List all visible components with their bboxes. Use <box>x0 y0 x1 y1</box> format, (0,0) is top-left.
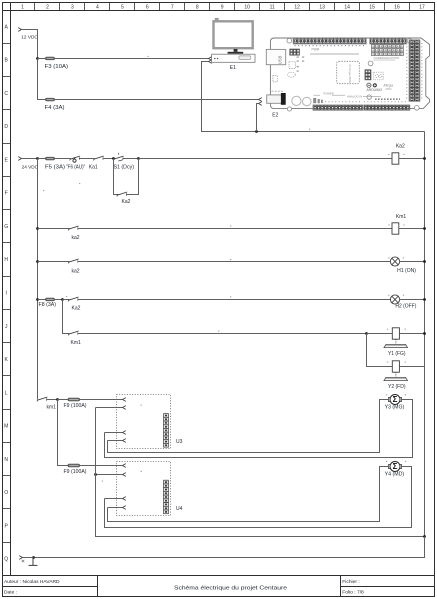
wire F8 to row J <box>63 300 70 334</box>
wire <box>399 228 425 230</box>
node rail row H <box>36 260 39 263</box>
fuse F5 <box>46 157 55 160</box>
svg-text:9: 9 <box>221 4 224 10</box>
node rail row I <box>36 298 39 301</box>
node ground <box>32 556 35 559</box>
arduino analog in silk <box>347 95 381 99</box>
contact ka2 row G <box>68 226 79 230</box>
svg-text:E1: E1 <box>230 65 236 71</box>
contact ka2 row H <box>68 259 79 263</box>
svg-text:ARDUINO: ARDUINO <box>367 88 383 92</box>
svg-text:Km1: Km1 <box>396 214 407 220</box>
svg-text:U4: U4 <box>176 506 183 512</box>
arduino power silk <box>314 91 346 95</box>
svg-text:Σ: Σ <box>393 462 398 471</box>
node S1 branch right <box>137 157 140 160</box>
ground <box>29 558 38 566</box>
svg-text:ATmega 2560: ATmega 2560 <box>348 64 352 83</box>
svg-text:2: 2 <box>46 4 49 10</box>
svg-text:1: 1 <box>21 4 24 10</box>
svg-text:2560: 2560 <box>386 87 392 91</box>
wire to U4 pin1 <box>80 465 123 467</box>
arduino bottom pin header A <box>313 105 363 110</box>
svg-text:13: 13 <box>319 4 325 10</box>
svg-text:G: G <box>4 224 8 230</box>
svg-text:7: 7 <box>171 4 174 10</box>
contact Km1 row J <box>68 331 79 335</box>
fuse F9 lower <box>68 464 80 467</box>
svg-text:Fichier :: Fichier : <box>342 579 359 585</box>
wire <box>38 228 70 230</box>
lamp H1 <box>390 257 399 266</box>
wire <box>400 366 425 368</box>
node F3 tap <box>36 57 39 60</box>
solenoid valve Y2 <box>384 361 408 381</box>
node S1 branch left <box>112 157 115 160</box>
wire to F4 <box>38 59 46 100</box>
connector E1 pin1 <box>209 57 212 61</box>
svg-text:Ka1: Ka1 <box>89 164 98 170</box>
svg-text:5: 5 <box>121 4 124 10</box>
wire U4 pin3 to Y4 right <box>105 467 412 528</box>
svg-text:F4 (3A): F4 (3A) <box>45 105 65 111</box>
svg-text:D: D <box>4 124 8 130</box>
node 0V U4 tap <box>94 473 97 476</box>
connector 24VDC source <box>18 157 21 161</box>
fuse F3 <box>46 57 55 60</box>
wire <box>38 58 46 60</box>
wire F4 to E2 <box>55 99 259 101</box>
wire 12VDC feed <box>22 30 38 59</box>
svg-text:Auteur : Nicolas HAVARD: Auteur : Nicolas HAVARD <box>4 579 60 585</box>
contact km1 <box>37 397 48 401</box>
arduino ICSP header 1 <box>289 49 299 56</box>
arduino pwm silkline <box>310 47 359 54</box>
wire <box>38 299 46 301</box>
connector U4 pin3 <box>123 497 126 501</box>
arduino mounting holes <box>287 38 419 111</box>
wire <box>80 158 95 160</box>
lamp H2 <box>390 295 399 304</box>
node 24V rail top <box>36 157 39 160</box>
connector ground terminal <box>19 556 22 560</box>
node E2 return junction <box>255 130 258 133</box>
wire row I <box>78 299 391 301</box>
arduino communication jumper grid <box>372 45 404 56</box>
wire to U3 pin1 <box>80 399 123 401</box>
connector U4 pin2 <box>123 473 126 477</box>
wire km1 to F9 lower <box>58 400 69 466</box>
svg-text:E2: E2 <box>272 113 278 119</box>
svg-text:Schéma électrique du projet Ce: Schéma électrique du projet Centaure <box>174 585 287 591</box>
svg-text:Σ: Σ <box>393 395 398 404</box>
svg-text:km1: km1 <box>47 405 57 411</box>
U4 output pin strip <box>164 480 169 514</box>
wire <box>367 333 393 335</box>
svg-text:ka2: ka2 <box>72 269 80 275</box>
connector U4 pin4 <box>123 506 126 510</box>
ground terminal mark <box>22 560 25 562</box>
wire <box>58 399 69 401</box>
wire 0V to U3 pin2 <box>96 407 123 409</box>
connector E1 pin2 <box>209 60 212 64</box>
wire <box>400 261 425 263</box>
arduino USB connector <box>266 49 285 64</box>
svg-text:L: L <box>5 390 8 396</box>
S1 actuator <box>118 153 122 161</box>
arduino capacitors <box>292 96 311 105</box>
svg-text:Y3 (MG): Y3 (MG) <box>385 405 405 411</box>
svg-text:12: 12 <box>294 4 300 10</box>
contact F6 emergency stop <box>70 156 81 160</box>
svg-text:Q: Q <box>4 557 8 563</box>
svg-text:USB: USB <box>278 55 283 64</box>
svg-text:H: H <box>4 257 8 263</box>
svg-text:F5 (3A): F5 (3A) <box>45 164 65 170</box>
svg-text:F8 (3A): F8 (3A) <box>39 302 57 308</box>
fuse F8 <box>46 298 55 301</box>
arduino communication label <box>374 56 400 60</box>
arduino analog smd grid <box>375 98 400 100</box>
node rail H2 <box>423 298 426 301</box>
svg-text:C: C <box>4 91 8 97</box>
svg-text:14: 14 <box>344 4 350 10</box>
arduino bottom pin header B <box>364 105 410 110</box>
wire <box>47 399 58 401</box>
wire U3 pin3 <box>105 432 123 434</box>
wire <box>23 557 34 559</box>
arduino top pin labels <box>295 45 366 47</box>
wire <box>55 299 63 301</box>
svg-text:12 VDC: 12 VDC <box>21 35 38 40</box>
connector 12VDC source <box>18 28 21 32</box>
node 0V rail bottom <box>423 535 426 538</box>
connector U4 pin1 <box>123 464 126 468</box>
svg-text:Y2 (FD): Y2 (FD) <box>388 384 406 390</box>
wire <box>104 158 114 160</box>
connector U3 pin1 <box>123 398 126 402</box>
wire Ka2 hold branch <box>114 159 119 195</box>
wire <box>38 158 46 160</box>
svg-text:16: 16 <box>394 4 400 10</box>
wire row J <box>78 333 367 335</box>
node rail row G <box>36 227 39 230</box>
svg-text:8: 8 <box>196 4 199 10</box>
svg-text:11: 11 <box>270 4 275 10</box>
svg-text:ANALOG IN: ANALOG IN <box>347 95 362 99</box>
node rail H1 <box>423 260 426 263</box>
arduino right pin header <box>409 40 420 102</box>
arduino ICSP header 2 <box>365 69 372 80</box>
svg-text:F3 (10A): F3 (10A) <box>45 64 69 70</box>
arduino small parts left <box>273 62 296 82</box>
svg-text:4: 4 <box>96 4 99 10</box>
contact Ka1 <box>93 156 104 160</box>
svg-text:Ka2: Ka2 <box>72 306 81 312</box>
row header separators <box>3 44 11 543</box>
wire <box>399 158 425 160</box>
fuse F4 <box>46 98 55 101</box>
wire <box>400 333 425 335</box>
U3 output pin strip <box>164 414 169 448</box>
arduino logo <box>367 83 394 92</box>
svg-text:O: O <box>4 490 8 496</box>
connector U3 pin3 <box>123 431 126 435</box>
wire <box>123 158 139 160</box>
connector U3 pin2 <box>123 406 126 410</box>
svg-text:15: 15 <box>369 4 375 10</box>
motor Y4 <box>388 462 401 472</box>
wire E1 return <box>202 62 425 132</box>
relay coil Ka2 <box>392 153 399 164</box>
wire row G <box>78 228 393 230</box>
wire <box>38 261 70 263</box>
contact Ka2 holding <box>117 192 128 196</box>
svg-text:"F6 (AU)": "F6 (AU)" <box>66 164 85 170</box>
arduino top pin header A <box>293 38 366 44</box>
node F8 branch <box>61 298 64 301</box>
wire U3 pin4 to Y3 left <box>108 400 389 453</box>
relay coil Km1 <box>392 223 399 234</box>
wire <box>22 158 38 160</box>
arduino small chip dashed <box>374 72 383 80</box>
svg-text:Km1: Km1 <box>71 340 82 346</box>
arduino regulator parts <box>313 98 323 103</box>
wire <box>55 158 71 160</box>
contact Ka2 row I <box>68 297 79 301</box>
wire <box>127 159 139 195</box>
svg-text:17: 17 <box>419 4 425 10</box>
F6 mushroom head <box>73 157 76 162</box>
row letters <box>4 24 8 562</box>
svg-text:POWER: POWER <box>324 91 334 95</box>
svg-text:3: 3 <box>71 4 74 10</box>
wire F3 to E1 <box>55 58 209 60</box>
wire row K <box>367 334 393 367</box>
wire E2 return <box>257 104 259 132</box>
arduino power jack <box>267 91 286 105</box>
pin marks <box>43 56 406 482</box>
svg-text:S1 (Dcy): S1 (Dcy) <box>114 164 135 170</box>
column header separators <box>35 3 410 11</box>
svg-text:H1 (ON): H1 (ON) <box>397 268 416 274</box>
motor Y3 <box>388 395 401 405</box>
svg-text:Date :: Date : <box>4 589 17 595</box>
svg-text:F: F <box>5 191 8 197</box>
svg-text:COMMUNICATION: COMMUNICATION <box>374 56 400 60</box>
node rail Y1 <box>423 332 426 335</box>
wire U4 pin4 <box>108 507 123 509</box>
arduino right pin labels <box>407 43 422 100</box>
wire 0V return bus <box>96 408 425 537</box>
wire <box>63 299 70 301</box>
connector E2 power - <box>259 102 262 106</box>
svg-text:Ka2: Ka2 <box>396 143 405 149</box>
connector E2 power + <box>259 98 262 102</box>
svg-text:24 VDC: 24 VDC <box>22 164 39 169</box>
wire U4 pin4 to Y4 left <box>108 467 389 522</box>
svg-text:6: 6 <box>146 4 149 10</box>
wire row E to coil <box>139 158 393 160</box>
svg-text:Folio : 7/8: Folio : 7/8 <box>342 590 364 596</box>
svg-text:U3: U3 <box>176 439 183 445</box>
arduino ATmega2560 chip U <box>337 61 360 83</box>
arduino bottom pin labels <box>325 101 408 103</box>
wire left 24V rail <box>37 159 39 400</box>
wire U4 pin3 <box>105 498 123 500</box>
wire U3 pin3 to Y3 right <box>105 400 413 458</box>
wire right 0V rail <box>424 132 426 537</box>
node Y2 branch <box>365 332 368 335</box>
svg-text:M: M <box>4 424 8 430</box>
svg-text:Y1 (FG): Y1 (FG) <box>388 351 406 357</box>
column numbers <box>21 4 425 10</box>
solenoid valve Y1 <box>384 328 408 348</box>
wire U3 pin4 <box>108 440 123 442</box>
motor driver U4 box <box>117 462 171 516</box>
node km1 junction <box>56 398 59 401</box>
svg-text:N: N <box>4 457 8 463</box>
node rail Ka2 <box>423 157 426 160</box>
svg-text:10: 10 <box>244 4 250 10</box>
svg-text:ka2: ka2 <box>72 235 80 241</box>
svg-text:I: I <box>6 291 7 297</box>
svg-text:Ka2: Ka2 <box>122 199 131 205</box>
motor driver U3 box <box>117 395 171 449</box>
wire 0V to U4 pin2 <box>96 474 123 476</box>
svg-text:F9 (100A): F9 (100A) <box>64 469 87 475</box>
contact S1 start button <box>113 156 124 160</box>
arduino leds/labels specks <box>297 57 305 72</box>
fuse F9 upper <box>68 398 80 401</box>
wire ground bus <box>34 537 425 558</box>
arduino board E2 outline <box>270 38 429 109</box>
wire row H <box>78 261 391 263</box>
connector U3 pin4 <box>123 439 126 443</box>
node rail Km1 <box>423 227 426 230</box>
computer E1 <box>212 18 255 62</box>
svg-text:PWM: PWM <box>312 47 320 51</box>
svg-text:F9 (100A): F9 (100A) <box>64 403 87 409</box>
svg-text:H2 (OFF): H2 (OFF) <box>395 303 416 309</box>
svg-text:Y4 (MD): Y4 (MD) <box>385 471 405 477</box>
arduino top pin header B <box>370 38 407 44</box>
wire <box>400 299 425 301</box>
